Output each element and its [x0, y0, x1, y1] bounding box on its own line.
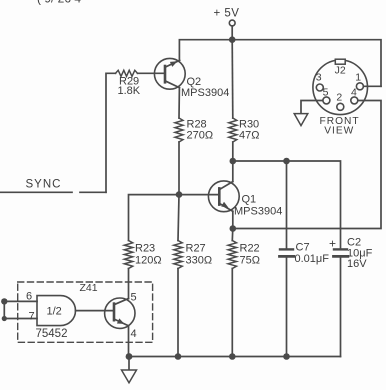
pin 1 — [356, 83, 363, 90]
wire: bottom ground rail — [129, 356, 341, 358]
svg-text:16V: 16V — [347, 258, 367, 270]
wire: collector node rail to C2 branch — [233, 161, 341, 248]
pin 4 — [351, 97, 358, 104]
svg-text:6: 6 — [26, 291, 32, 303]
wire: R23 bottom to U1 collector — [128, 269, 130, 299]
faint cropped header text — [37, 0, 246, 6]
node: Q1 collector junction dot — [230, 158, 237, 165]
resistor R29 — [116, 70, 138, 76]
connector J2 — [313, 59, 368, 114]
node: rail dot U1 emitter — [126, 353, 133, 360]
svg-text:4: 4 — [351, 87, 357, 99]
ground symbol main — [122, 357, 137, 383]
transistor U1 output — [105, 298, 135, 357]
gate U1 1/2 75452 — [37, 296, 76, 326]
wire: R22 bottom to ground rail — [231, 269, 233, 357]
wire: input 6 — [4, 300, 37, 302]
wire: input tie bar — [3, 301, 5, 318]
node: rail dot C7 — [283, 353, 290, 360]
svg-text:+: + — [329, 237, 336, 251]
wire: R30 bottom to collector node — [232, 142, 234, 161]
resistor R23 — [124, 241, 132, 269]
svg-text:4: 4 — [131, 328, 137, 340]
wire: R28 bottom to base node — [178, 142, 180, 195]
pin 2 — [337, 103, 344, 110]
svg-text:5: 5 — [323, 87, 329, 99]
ground symbol J2 — [294, 114, 308, 126]
svg-text:J2: J2 — [335, 64, 346, 76]
svg-text:+ 5V: + 5V — [214, 8, 240, 20]
svg-text:R22: R22 — [240, 243, 260, 255]
svg-text:3: 3 — [316, 71, 322, 83]
svg-text:MPS3904: MPS3904 — [234, 206, 282, 218]
wire: base node to R27 — [178, 195, 179, 241]
svg-text:330Ω: 330Ω — [186, 255, 213, 267]
svg-text:2: 2 — [336, 91, 342, 103]
node: R28/R27 junction dot — [176, 191, 183, 198]
node: +5V rail junction dot — [229, 36, 236, 43]
svg-text:Q1: Q1 — [242, 194, 257, 206]
wire: gate output to transistor base — [76, 310, 115, 312]
node: rail dot R22 — [229, 353, 236, 360]
svg-text:R27: R27 — [186, 243, 206, 255]
svg-text:( 9/ 26 4: ( 9/ 26 4 — [37, 0, 81, 6]
wire: pin 1 to rail — [364, 85, 381, 87]
svg-text:75Ω: 75Ω — [240, 255, 260, 267]
+5V terminal circle — [229, 20, 235, 26]
wire: Q1 emitter line to pin4 drop — [233, 101, 381, 229]
svg-text:75452: 75452 — [36, 328, 68, 340]
capacitor C2 — [334, 249, 348, 356]
transistor Q2 — [138, 58, 186, 89]
node: input tie dot top — [1, 298, 7, 304]
svg-text:--: -- — [238, 0, 246, 5]
svg-text:7: 7 — [29, 311, 35, 323]
wire: R29 left + SYNC riser — [106, 73, 116, 192]
wire: +5V lead — [231, 26, 233, 40]
resistor R22 — [228, 241, 236, 269]
svg-text:MPS3904: MPS3904 — [181, 87, 229, 99]
wire: SYNC input line — [0, 191, 72, 193]
node: rail dot R27 — [175, 353, 182, 360]
svg-text:1/2: 1/2 — [47, 306, 62, 318]
svg-text:C7: C7 — [296, 242, 310, 254]
wire: rail to R30 — [231, 40, 234, 118]
capacitor C7 — [280, 161, 294, 357]
svg-text:1: 1 — [355, 72, 361, 84]
node: Q1 emitter junction dot — [230, 225, 237, 232]
node: C7 top junction dot — [283, 158, 290, 165]
wire: emitter node to R22 — [231, 229, 234, 241]
wire: pin 5 to ground — [301, 101, 323, 114]
resistor R27 — [174, 241, 182, 269]
node: input tie dot bottom — [2, 316, 7, 321]
svg-text:SYNC: SYNC — [26, 179, 62, 191]
svg-text:Z41: Z41 — [80, 282, 98, 294]
pin 3 — [316, 84, 323, 91]
svg-text:R23: R23 — [135, 243, 155, 255]
svg-text:270Ω: 270Ω — [187, 130, 214, 142]
svg-text:1.8K: 1.8K — [118, 85, 141, 97]
wire: Q1 base wire — [129, 195, 220, 241]
svg-text:120Ω: 120Ω — [135, 255, 162, 267]
wire: R27 bottom to ground rail — [177, 269, 179, 357]
wire: SYNC line segment 2 — [80, 191, 106, 193]
wire: input 7 — [4, 318, 37, 320]
transistor Q1 — [208, 161, 239, 229]
svg-text:VIEW: VIEW — [324, 125, 354, 136]
svg-text:0.01μF: 0.01μF — [295, 253, 330, 265]
resistor R28 — [175, 118, 183, 142]
svg-text:47Ω: 47Ω — [239, 130, 259, 142]
svg-text:5: 5 — [131, 292, 137, 304]
dashed IC box Z41 — [18, 282, 153, 342]
pin 5 — [323, 97, 330, 104]
wire: Q2 emitter column to R28 — [178, 88, 180, 118]
resistor R30 — [229, 118, 237, 142]
wire: top +5V rail — [179, 40, 381, 87]
